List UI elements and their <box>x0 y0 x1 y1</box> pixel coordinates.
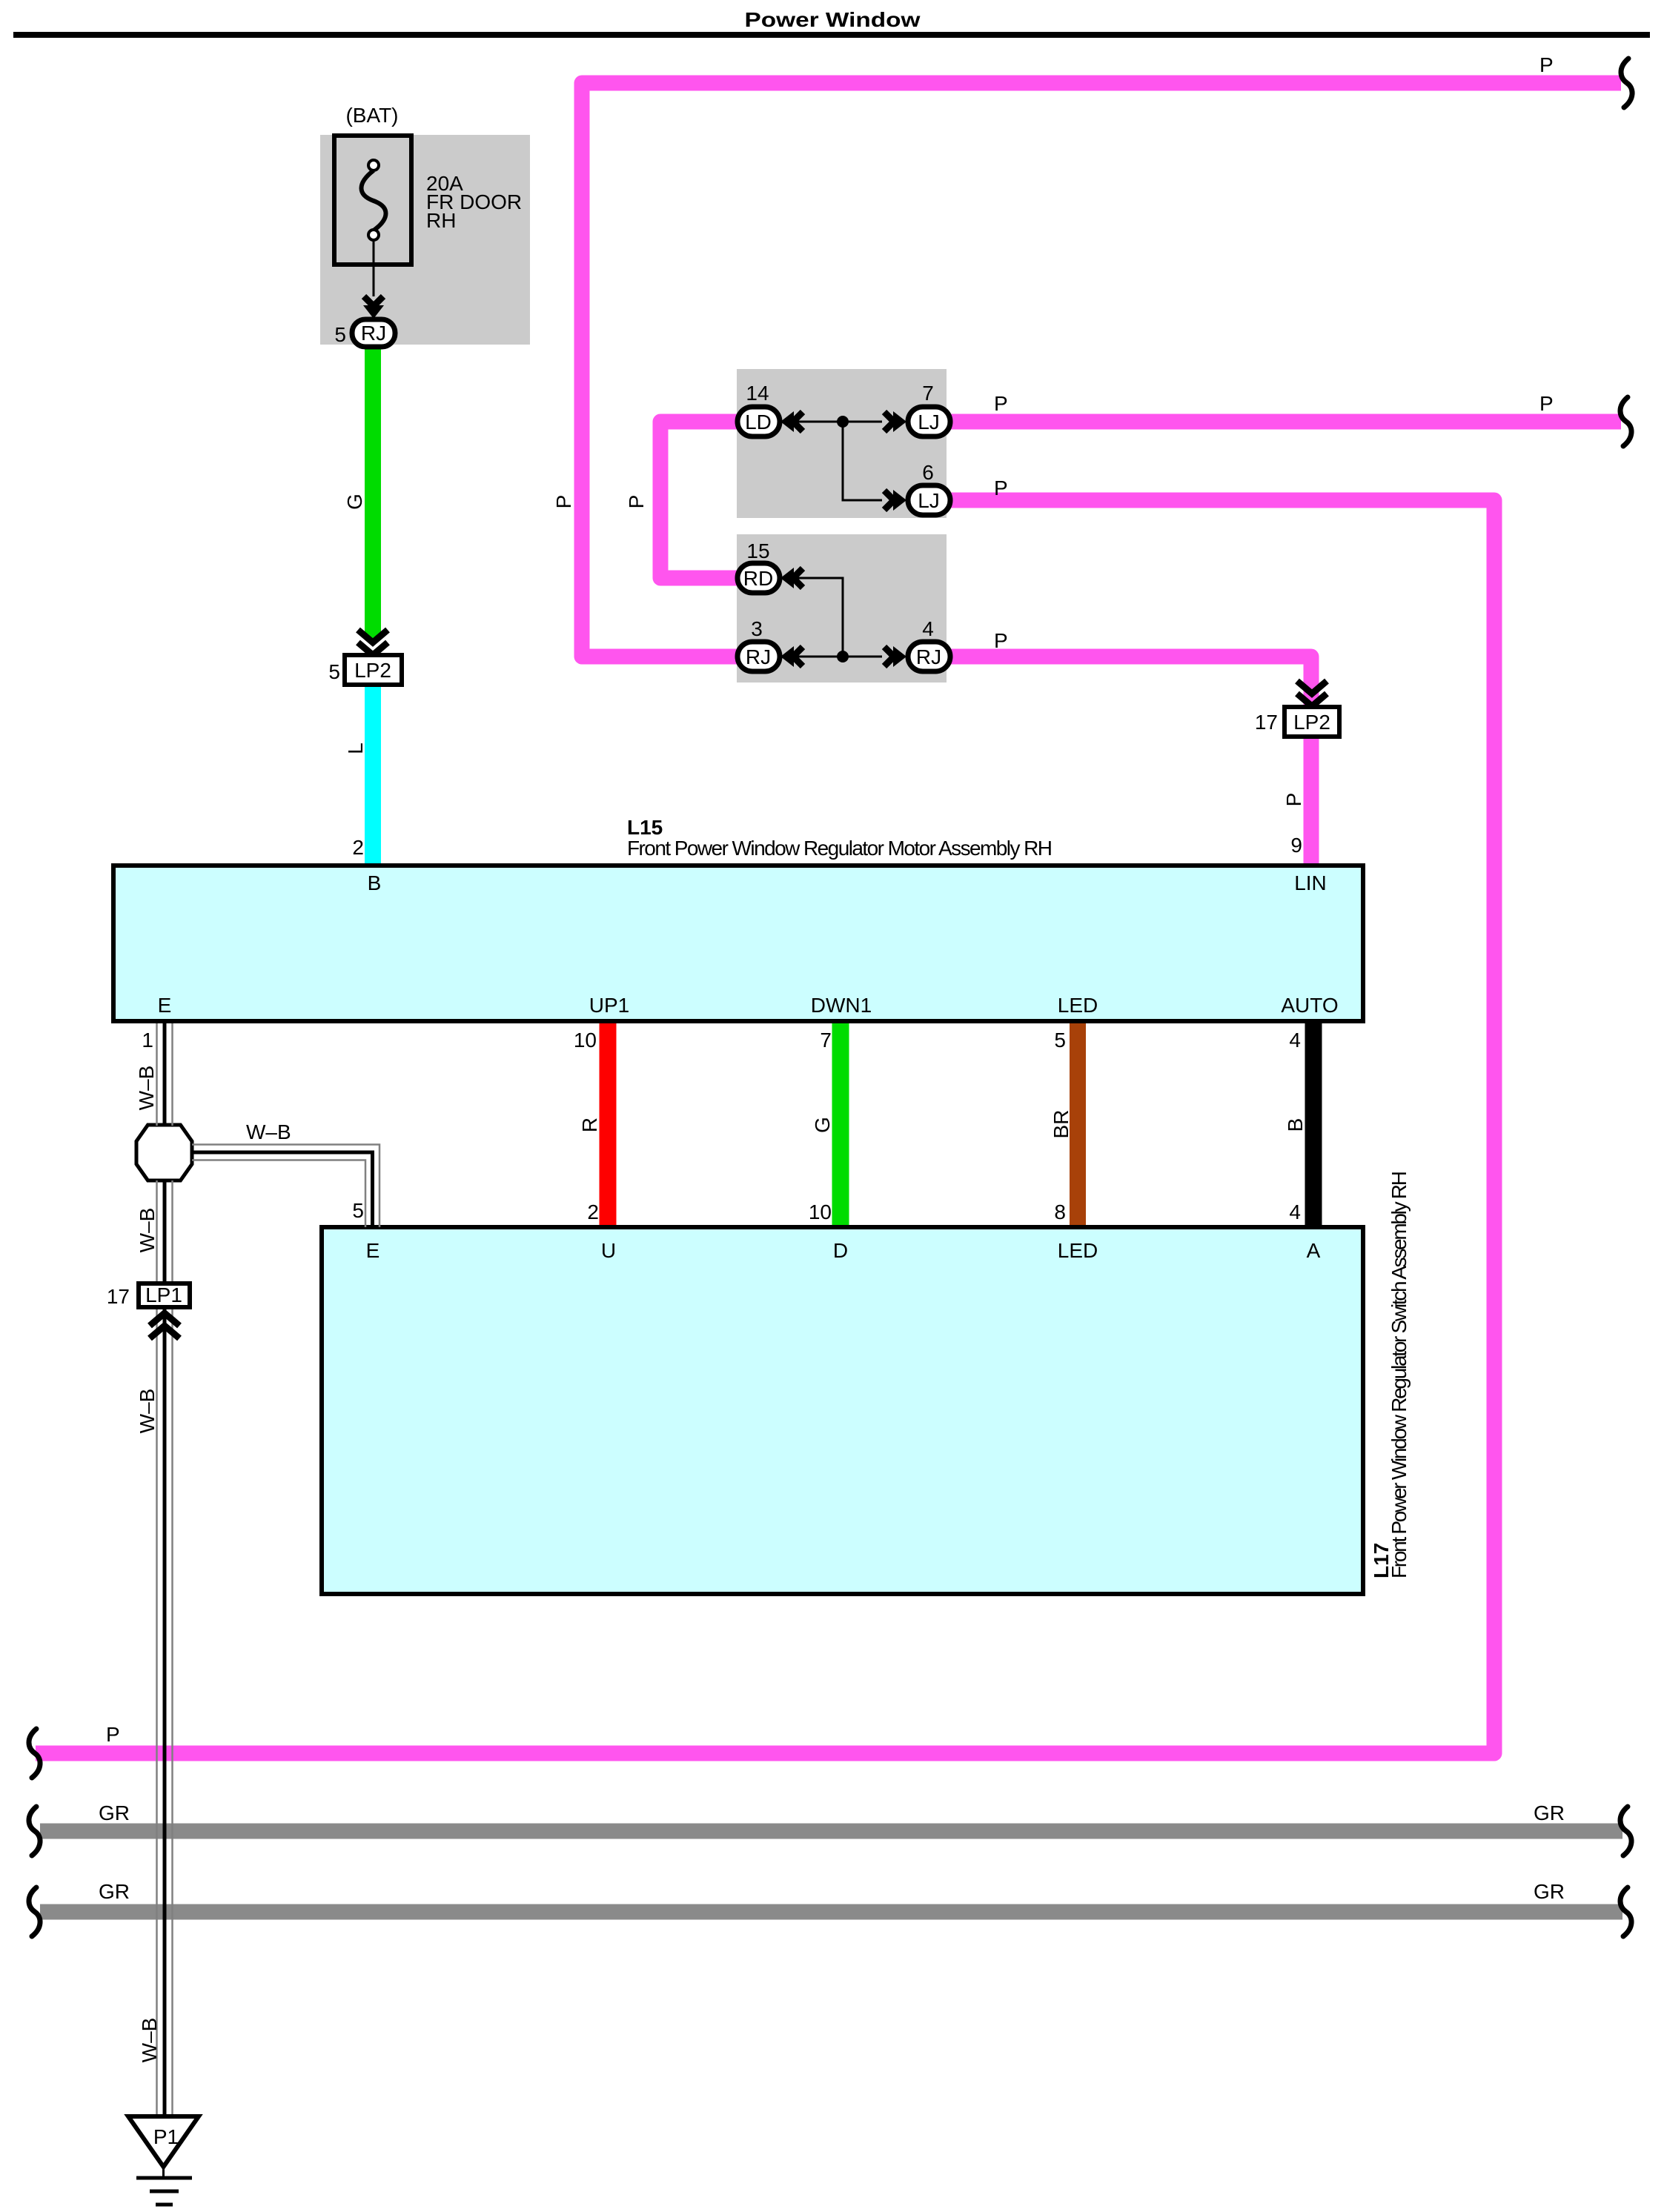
arrow into RJ(4) <box>884 646 906 667</box>
svg-text:E: E <box>366 1239 380 1262</box>
svg-text:LED: LED <box>1058 994 1098 1017</box>
connector LP1 pin 17 <box>139 1283 190 1307</box>
connector oval RJ pin 3 <box>737 642 780 671</box>
title rule <box>13 32 1650 38</box>
wire G: fuse RJ(5) to LP2(5) <box>365 345 381 639</box>
arrow into RJ(5) <box>363 296 384 319</box>
svg-text:RH: RH <box>426 209 456 232</box>
svg-text:AUTO: AUTO <box>1281 994 1338 1017</box>
svg-text:(BAT): (BAT) <box>345 104 398 127</box>
node line RJ3-RJ4 <box>786 656 882 658</box>
connector oval LJ pin 6 <box>908 485 950 515</box>
svg-text:5: 5 <box>328 660 340 683</box>
svg-text:B: B <box>368 871 382 894</box>
connector oval LD pin 14 <box>737 407 780 436</box>
svg-text:LIN: LIN <box>1294 871 1327 894</box>
gray relay block box RD/RJ <box>737 534 947 682</box>
svg-text:RJ: RJ <box>916 645 941 668</box>
break symbol bottom left P <box>29 1729 40 1778</box>
ground triangle P1 <box>128 2116 199 2167</box>
svg-text:P: P <box>994 629 1008 652</box>
svg-text:W–B: W–B <box>138 2018 161 2063</box>
svg-text:15: 15 <box>746 539 769 562</box>
wire L: LP2(5) to L15 pin 2 B <box>365 685 381 863</box>
svg-text:LJ: LJ <box>918 411 940 434</box>
junction dot LD/LJ <box>837 416 849 428</box>
svg-text:L15: L15 <box>627 816 663 839</box>
double chevron into LP1 <box>150 1313 179 1326</box>
svg-text:RJ: RJ <box>361 322 386 345</box>
svg-text:DWN1: DWN1 <box>811 994 872 1017</box>
svg-text:LP1: LP1 <box>145 1283 182 1306</box>
svg-text:4: 4 <box>1289 1029 1301 1052</box>
break symbol top right P <box>1621 59 1632 107</box>
svg-text:U: U <box>601 1239 616 1262</box>
ground bar 1 <box>136 2176 192 2180</box>
svg-text:10: 10 <box>809 1200 832 1223</box>
break symbol left GR lower <box>29 1887 40 1936</box>
svg-text:D: D <box>833 1239 848 1262</box>
svg-text:RD: RD <box>743 567 773 590</box>
gray relay block box LD/LJ <box>737 369 947 518</box>
wire P: LJ(6) loop down right side to bottom-left break <box>36 500 1494 1753</box>
svg-text:BR: BR <box>1050 1110 1073 1139</box>
svg-text:GR: GR <box>1534 1801 1565 1824</box>
svg-text:LJ: LJ <box>918 489 940 512</box>
svg-text:5: 5 <box>352 1199 364 1222</box>
wire P: RJ(4) to connector LP2 pin 17 <box>949 657 1311 707</box>
svg-text:UP1: UP1 <box>589 994 629 1017</box>
svg-text:P: P <box>994 392 1008 415</box>
svg-text:4: 4 <box>922 617 934 640</box>
svg-text:B: B <box>1284 1118 1307 1132</box>
svg-text:P: P <box>552 495 575 509</box>
splice octagon <box>136 1125 192 1180</box>
lead from fuse to arrow <box>373 240 375 296</box>
break symbol right P (LJ7) <box>1620 397 1631 446</box>
svg-text:LD: LD <box>745 411 772 434</box>
svg-text:P: P <box>1539 53 1554 76</box>
node line LD-LJ7 <box>786 421 882 423</box>
wire BR: L15 LED to L17 LED <box>1070 1023 1086 1230</box>
wire B: L15 AUTO to L17 A <box>1305 1023 1322 1230</box>
svg-text:3: 3 <box>751 617 763 640</box>
svg-text:LP2: LP2 <box>1293 711 1330 734</box>
svg-text:E: E <box>158 994 172 1017</box>
break symbol right GR lower <box>1620 1887 1631 1936</box>
connector LP2 pin 5 <box>345 655 402 685</box>
svg-text:GR: GR <box>1534 1880 1565 1903</box>
arrow into RD(15) <box>780 568 803 588</box>
svg-text:GR: GR <box>99 1801 130 1824</box>
svg-text:G: G <box>343 494 366 510</box>
svg-text:2: 2 <box>352 836 364 859</box>
ground bar 2 <box>150 2190 179 2193</box>
fuse 20A FR DOOR RH rectangle <box>334 136 411 265</box>
svg-text:P: P <box>106 1723 120 1746</box>
fuse element S-curve <box>362 170 386 230</box>
junction dot RJ <box>837 651 849 662</box>
svg-text:Front Power Window Regulator S: Front Power Window Regulator Switch Asse… <box>1388 1171 1411 1578</box>
arrow into LJ(7) <box>884 411 906 432</box>
svg-text:4: 4 <box>1289 1200 1301 1223</box>
ground stem <box>162 2167 165 2178</box>
L17 box Front Power Window Regulator Switch Assembly RH <box>322 1227 1363 1594</box>
svg-text:W–B: W–B <box>136 1389 159 1434</box>
svg-text:Power Window: Power Window <box>745 8 921 31</box>
svg-text:A: A <box>1307 1239 1321 1262</box>
L15 box Front Power Window Regulator Motor Assembly RH <box>113 866 1363 1021</box>
break symbol right GR upper <box>1620 1807 1631 1856</box>
wire GR lower <box>40 1904 1622 1920</box>
wire P: LD(14) to RD(15) link <box>660 422 737 578</box>
break symbol left GR upper <box>29 1807 40 1856</box>
connector oval LJ pin 7 <box>908 407 950 436</box>
wire W-B: splice to LP1 <box>157 1180 173 1283</box>
wire P: LJ(7) to right break <box>949 414 1621 430</box>
svg-text:17: 17 <box>107 1285 130 1308</box>
svg-text:LP2: LP2 <box>354 659 391 682</box>
wire W-B: splice branch to L17 E pin 5 <box>192 1145 379 1228</box>
svg-text:5: 5 <box>334 323 346 346</box>
fuse bottom terminal circle <box>368 230 379 240</box>
svg-text:RJ: RJ <box>746 645 771 668</box>
double chevron into LP2(17) <box>1297 681 1327 694</box>
svg-text:6: 6 <box>922 461 934 484</box>
double chevron into LP2(5) <box>358 630 388 642</box>
wire W-B: LP1 to ground P1 <box>157 1309 173 2116</box>
svg-text:1: 1 <box>142 1029 153 1052</box>
arrow into LD(14) <box>780 411 803 432</box>
arrow into LJ(6) <box>884 490 906 511</box>
svg-text:W–B: W–B <box>246 1120 291 1143</box>
arrow into RJ(3) <box>780 646 803 667</box>
svg-text:P: P <box>994 476 1008 499</box>
svg-text:14: 14 <box>746 382 769 405</box>
svg-text:7: 7 <box>820 1029 832 1052</box>
svg-text:2: 2 <box>587 1200 599 1223</box>
svg-text:7: 7 <box>922 382 934 405</box>
svg-text:L: L <box>344 743 367 754</box>
svg-text:5: 5 <box>1054 1029 1066 1052</box>
wire P: top run from break to RJ(3) <box>582 83 1621 657</box>
connector oval RJ pin 5 <box>352 319 395 347</box>
connector oval RJ pin 4 <box>908 642 950 671</box>
svg-text:GR: GR <box>99 1880 130 1903</box>
ground bar 3 <box>156 2203 173 2207</box>
svg-text:W–B: W–B <box>136 1208 159 1253</box>
svg-text:W–B: W–B <box>135 1066 158 1111</box>
junction block gray box (fuse area) <box>320 135 530 345</box>
wire P: LP2 to L15 pin 9 LIN <box>1304 737 1319 863</box>
node line junction down to LJ6 <box>843 422 882 500</box>
connector LP2 pin 17 <box>1285 707 1339 737</box>
svg-text:P: P <box>1539 392 1554 415</box>
wire GR upper <box>40 1824 1622 1839</box>
svg-text:P: P <box>625 495 648 509</box>
svg-text:R: R <box>578 1117 601 1132</box>
wire R: L15 UP1 to L17 U <box>600 1023 617 1230</box>
svg-text:17: 17 <box>1255 711 1278 734</box>
svg-text:LED: LED <box>1058 1239 1098 1262</box>
connector oval RD pin 15 <box>737 563 780 593</box>
node line RD to vertical <box>786 578 843 657</box>
wire G: L15 DWN1 to L17 D <box>832 1023 849 1230</box>
svg-text:P: P <box>1282 793 1305 807</box>
svg-text:G: G <box>811 1117 834 1133</box>
wire W-B: L15 E to splice <box>157 1023 173 1126</box>
svg-text:10: 10 <box>574 1029 597 1052</box>
svg-text:9: 9 <box>1290 834 1302 857</box>
fuse top terminal circle <box>368 160 379 170</box>
svg-text:Front Power Window Regulator M: Front Power Window Regulator Motor Assem… <box>627 837 1053 860</box>
svg-text:8: 8 <box>1054 1200 1066 1223</box>
svg-text:P1: P1 <box>153 2125 179 2148</box>
